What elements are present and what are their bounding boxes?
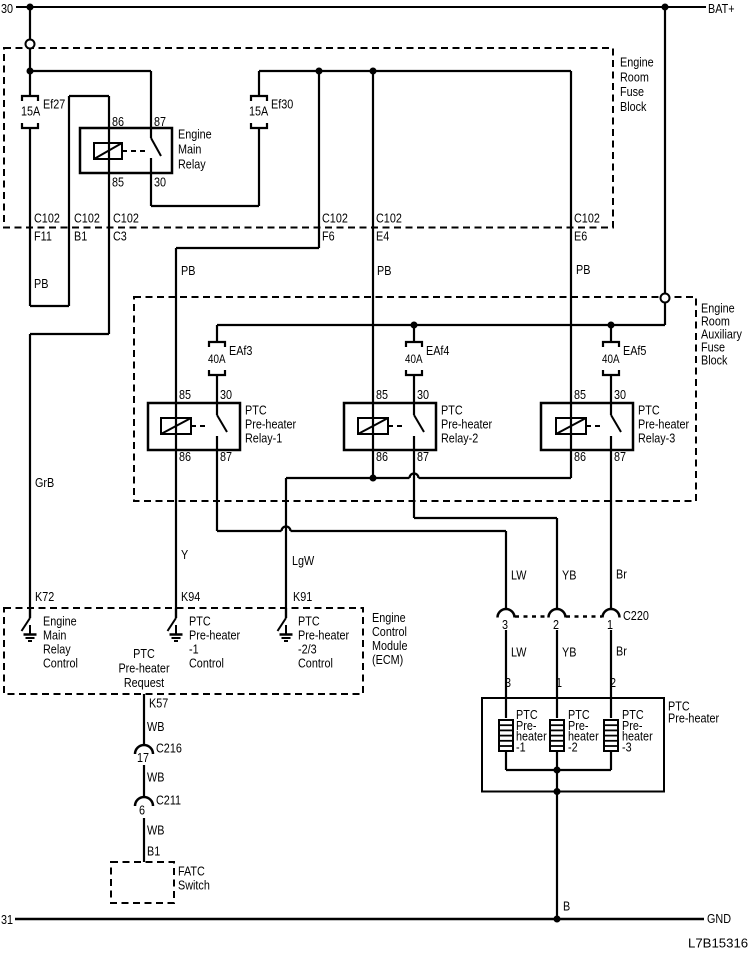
svg-text:Engine: Engine (43, 613, 77, 628)
svg-text:31: 31 (1, 912, 13, 927)
svg-text:Pre-heater: Pre-heater (245, 416, 296, 431)
svg-text:3: 3 (505, 675, 511, 690)
svg-text:K72: K72 (35, 589, 55, 604)
svg-text:EAf5: EAf5 (623, 343, 647, 358)
svg-text:6: 6 (139, 802, 145, 817)
svg-text:B1: B1 (74, 228, 87, 243)
svg-text:Fuse: Fuse (620, 84, 644, 99)
svg-text:Engine: Engine (178, 126, 212, 141)
svg-text:Pre-heater: Pre-heater (298, 627, 349, 642)
svg-text:PB: PB (576, 262, 590, 277)
svg-text:85: 85 (376, 387, 388, 402)
svg-text:Br: Br (616, 643, 627, 658)
svg-text:Pre-heater: Pre-heater (189, 627, 240, 642)
svg-text:30: 30 (614, 387, 626, 402)
svg-text:15A: 15A (249, 103, 269, 118)
svg-text:30: 30 (220, 387, 232, 402)
svg-text:Main: Main (178, 141, 201, 156)
svg-text:GND: GND (707, 911, 731, 926)
svg-text:PTC: PTC (133, 646, 155, 661)
svg-text:FATC: FATC (178, 863, 205, 878)
svg-text:Engine: Engine (620, 54, 654, 69)
svg-text:C102: C102 (34, 210, 60, 225)
svg-text:B1: B1 (147, 843, 160, 858)
svg-text:EAf3: EAf3 (229, 343, 253, 358)
svg-text:C216: C216 (156, 740, 182, 755)
svg-text:LgW: LgW (292, 553, 315, 568)
svg-text:C220: C220 (623, 608, 649, 623)
svg-text:86: 86 (574, 449, 586, 464)
svg-text:30: 30 (154, 174, 166, 189)
svg-text:Pre-heater: Pre-heater (638, 416, 689, 431)
svg-text:87: 87 (154, 114, 166, 129)
svg-text:85: 85 (179, 387, 191, 402)
svg-text:Switch: Switch (178, 877, 210, 892)
svg-text:PTC: PTC (189, 613, 211, 628)
svg-text:K94: K94 (181, 589, 201, 604)
svg-text:30: 30 (1, 1, 13, 16)
svg-text:PTC: PTC (298, 613, 320, 628)
svg-text:K91: K91 (293, 589, 313, 604)
svg-text:Request: Request (124, 675, 165, 690)
svg-text:Ef30: Ef30 (271, 96, 294, 111)
svg-text:F11: F11 (34, 228, 52, 243)
svg-text:1: 1 (556, 675, 562, 690)
svg-text:86: 86 (179, 449, 191, 464)
svg-text:C102: C102 (74, 210, 100, 225)
svg-text:PTC: PTC (245, 402, 267, 417)
svg-text:(ECM): (ECM) (372, 652, 403, 667)
svg-text:Room: Room (620, 69, 649, 84)
svg-text:Relay: Relay (43, 641, 71, 656)
svg-text:2: 2 (610, 675, 616, 690)
svg-text:Control: Control (189, 655, 224, 670)
svg-text:PB: PB (181, 263, 195, 278)
svg-text:87: 87 (417, 449, 429, 464)
svg-text:WB: WB (147, 769, 164, 784)
svg-text:-1: -1 (516, 739, 526, 754)
svg-text:C102: C102 (113, 210, 139, 225)
svg-text:86: 86 (112, 114, 124, 129)
svg-text:E4: E4 (376, 228, 389, 243)
svg-text:Pre-heater: Pre-heater (118, 660, 169, 675)
svg-text:LW: LW (511, 567, 527, 582)
svg-text:Ef27: Ef27 (43, 96, 66, 111)
svg-text:Block: Block (620, 99, 647, 114)
svg-text:PTC: PTC (441, 402, 463, 417)
svg-text:Pre-heater: Pre-heater (668, 710, 719, 725)
svg-text:Relay-1: Relay-1 (245, 430, 283, 445)
svg-text:C211: C211 (156, 792, 181, 807)
svg-text:15A: 15A (21, 103, 41, 118)
svg-text:17: 17 (137, 750, 149, 765)
svg-text:C102: C102 (376, 210, 402, 225)
svg-text:Br: Br (616, 566, 627, 581)
svg-text:YB: YB (562, 567, 576, 582)
svg-text:Control: Control (298, 655, 333, 670)
svg-text:86: 86 (376, 449, 388, 464)
svg-text:85: 85 (574, 387, 586, 402)
svg-text:Control: Control (372, 624, 407, 639)
svg-text:YB: YB (562, 644, 576, 659)
svg-text:Engine: Engine (372, 610, 406, 625)
svg-text:B: B (563, 898, 570, 913)
svg-text:PTC: PTC (638, 402, 660, 417)
svg-text:C102: C102 (322, 210, 348, 225)
svg-text:E6: E6 (574, 228, 587, 243)
svg-text:40A: 40A (208, 353, 226, 366)
svg-text:Control: Control (43, 655, 78, 670)
svg-text:Relay: Relay (178, 156, 206, 171)
svg-text:Y: Y (181, 547, 188, 562)
svg-text:Relay-3: Relay-3 (638, 430, 676, 445)
svg-text:40A: 40A (405, 353, 423, 366)
svg-text:-2: -2 (568, 739, 578, 754)
svg-text:K57: K57 (149, 695, 169, 710)
svg-text:40A: 40A (602, 353, 620, 366)
svg-text:C3: C3 (113, 228, 127, 243)
svg-text:Pre-heater: Pre-heater (441, 416, 492, 431)
svg-text:L7B15316: L7B15316 (688, 936, 748, 951)
svg-text:-1: -1 (189, 641, 199, 656)
svg-text:2: 2 (553, 617, 559, 632)
svg-text:Main: Main (43, 627, 66, 642)
svg-text:PB: PB (377, 263, 391, 278)
svg-text:Block: Block (701, 352, 728, 367)
svg-text:Module: Module (372, 638, 408, 653)
svg-text:1: 1 (607, 617, 613, 632)
svg-text:GrB: GrB (35, 475, 54, 490)
svg-text:-3: -3 (622, 739, 632, 754)
svg-text:-2/3: -2/3 (298, 641, 317, 656)
svg-text:30: 30 (417, 387, 429, 402)
svg-text:EAf4: EAf4 (426, 343, 450, 358)
svg-text:LW: LW (511, 644, 527, 659)
svg-text:87: 87 (614, 449, 626, 464)
svg-text:WB: WB (147, 822, 164, 837)
svg-text:WB: WB (147, 719, 164, 734)
svg-text:PB: PB (34, 276, 48, 291)
svg-text:85: 85 (112, 174, 124, 189)
svg-text:C102: C102 (574, 210, 600, 225)
svg-text:87: 87 (220, 449, 232, 464)
svg-text:3: 3 (502, 617, 508, 632)
svg-text:F6: F6 (322, 228, 335, 243)
svg-text:BAT+: BAT+ (708, 1, 735, 16)
svg-text:Relay-2: Relay-2 (441, 430, 479, 445)
